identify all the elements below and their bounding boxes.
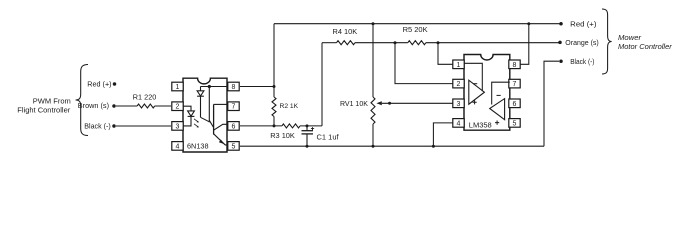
- capacitor C1: [306, 126, 308, 130]
- node top rail / RV1: [372, 22, 375, 25]
- LED inside 6N138: [183, 106, 191, 111]
- node Q1 collector junction: [208, 85, 211, 88]
- pin 5 6N138: [228, 142, 239, 151]
- node Orange (s) motor: [558, 41, 562, 45]
- wire Brown to R1: [116, 105, 137, 107]
- node wiper wire dot: [388, 102, 391, 105]
- node Brown (s) PWM: [112, 104, 116, 108]
- node Black (-) PWM: [112, 124, 116, 128]
- pin 4 6N138: [172, 142, 183, 151]
- wire V+ drop to R2: [273, 24, 275, 97]
- wire R5 to Orange: [426, 42, 560, 44]
- wire top rail to RV1: [372, 24, 374, 97]
- svg-text:2: 2: [457, 81, 461, 88]
- pin 7 6N138: [228, 102, 239, 111]
- svg-text:RV1 10K: RV1 10K: [340, 101, 368, 108]
- pin 3 LM358: [453, 99, 464, 108]
- svg-text:R2 1K: R2 1K: [280, 103, 299, 110]
- wire R4 left branch: [321, 43, 323, 126]
- wire R4 to R5: [355, 42, 408, 44]
- svg-text:5: 5: [232, 143, 236, 150]
- svg-text:Flight Controller: Flight Controller: [17, 105, 70, 114]
- pin 1 LM358: [453, 60, 464, 69]
- node Red (+) PWM: [113, 82, 117, 86]
- svg-text:PWM From: PWM From: [33, 96, 71, 105]
- svg-text:Mower: Mower: [618, 33, 642, 42]
- wire 6N138 internal Vcc rail: [201, 86, 228, 88]
- svg-text:LM358: LM358: [469, 121, 492, 130]
- wire photodiode to Q1 base: [201, 117, 210, 122]
- node top rail / LM358 pin8: [527, 22, 530, 25]
- node RV1 / ground: [372, 145, 375, 148]
- wire ground rail: [240, 145, 544, 147]
- photodiode D1 inside 6N138: [200, 87, 202, 91]
- resistor R1: [137, 104, 155, 108]
- svg-text:1: 1: [176, 84, 180, 91]
- svg-text:3: 3: [176, 123, 180, 130]
- svg-text:3: 3: [457, 101, 461, 108]
- svg-text:R4 10K: R4 10K: [333, 27, 358, 36]
- wire Black to pin3: [116, 125, 171, 127]
- wire LM pin1 to op-amp A output: [464, 63, 482, 91]
- pin 3 6N138: [172, 122, 183, 131]
- pin 6 LM358: [509, 99, 520, 108]
- node R4-R5 / LM pin2: [394, 41, 397, 44]
- svg-text:R5 20K: R5 20K: [403, 25, 428, 34]
- potentiometer RV1: [371, 97, 375, 124]
- transistor Q2 inside 6N138: [213, 104, 215, 134]
- svg-text:R1 220: R1 220: [133, 94, 157, 102]
- pin 8 LM358: [509, 60, 520, 69]
- svg-text:4: 4: [176, 143, 180, 150]
- svg-text:Red (+): Red (+): [570, 19, 596, 28]
- wire ground to LM pin4: [433, 123, 452, 146]
- optocoupler U1 6N138 body: [183, 78, 227, 152]
- svg-text:Brown (s): Brown (s): [78, 101, 109, 110]
- pin 8 6N138: [228, 82, 239, 91]
- wire R5 to LM pin1: [438, 43, 453, 65]
- node C1 / ground: [306, 145, 309, 148]
- wire V+ top rail: [274, 23, 562, 25]
- wire pin8 to R2 top node: [240, 86, 274, 88]
- svg-text:Black (-): Black (-): [84, 123, 110, 131]
- node pin8 / R2: [273, 85, 276, 88]
- resistor R5: [408, 41, 426, 45]
- svg-text:5: 5: [513, 120, 517, 127]
- svg-text:1: 1: [457, 62, 461, 69]
- svg-text:2: 2: [176, 104, 180, 111]
- wire LM pin7 to op-amp B output: [492, 82, 510, 104]
- transistor Q1 inside 6N138: [208, 87, 210, 123]
- pin 7 LM358: [509, 79, 520, 88]
- left brace: [76, 65, 88, 136]
- svg-text:6: 6: [513, 101, 517, 108]
- right brace: [602, 9, 612, 74]
- node R3 / C1: [306, 124, 309, 127]
- op-amp B triangle inside LM358: [490, 99, 505, 120]
- svg-text:Motor Controller: Motor Controller: [618, 42, 672, 51]
- svg-text:8: 8: [513, 62, 517, 69]
- svg-text:6N138: 6N138: [187, 141, 209, 150]
- resistor R4: [337, 41, 356, 45]
- node Red (+) motor: [559, 22, 563, 26]
- wire LM pin8 to V+ rail: [520, 24, 529, 65]
- resistor R2: [272, 97, 276, 117]
- resistor R3: [282, 124, 300, 128]
- wire pin6 to R3: [240, 125, 282, 127]
- pin 1 6N138: [172, 82, 183, 91]
- node R2 / pin6: [273, 124, 276, 127]
- svg-text:8: 8: [232, 84, 236, 91]
- RV1 wiper arrow: [376, 101, 381, 105]
- svg-text:7: 7: [513, 81, 517, 88]
- pin 5 LM358: [509, 119, 520, 128]
- svg-text:7: 7: [232, 104, 236, 111]
- svg-text:6: 6: [232, 123, 236, 130]
- svg-text:4: 4: [457, 120, 461, 127]
- wire R1 to pin2: [155, 105, 171, 107]
- wire ground to Black (-) motor: [544, 61, 559, 146]
- wire R2 bottom: [273, 117, 275, 126]
- svg-text:R3 10K: R3 10K: [270, 131, 295, 140]
- svg-text:Black (-): Black (-): [570, 59, 594, 66]
- wire RV1 bottom to ground rail: [372, 124, 374, 146]
- wire R3 to C1/R4 node: [300, 125, 322, 127]
- svg-text:Red (+): Red (+): [87, 80, 111, 89]
- node R5 / LM pin1: [437, 41, 440, 44]
- node Black (-) motor: [559, 59, 563, 63]
- pin 2 6N138: [172, 102, 183, 111]
- wire wiper to LM pin3: [382, 102, 453, 104]
- LED emission arrows: [194, 119, 198, 122]
- wire to R4: [322, 42, 337, 44]
- node LM pin4 / ground: [432, 145, 435, 148]
- pin 2 LM358: [453, 79, 464, 88]
- op-amp A triangle inside LM358: [469, 80, 485, 104]
- svg-text:Orange (s): Orange (s): [565, 40, 598, 47]
- op-amp U2 LM358 body: [464, 55, 510, 131]
- svg-text:C1 1uf: C1 1uf: [317, 133, 340, 142]
- wire divider to LM pin2: [395, 43, 453, 84]
- pin 6 6N138: [228, 122, 239, 131]
- pin 4 LM358: [453, 119, 464, 128]
